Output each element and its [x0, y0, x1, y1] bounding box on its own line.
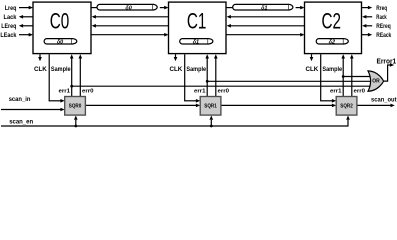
svg-text:Sample: Sample [322, 67, 342, 73]
svg-text:δ0: δ0 [57, 39, 63, 45]
svg-text:δ1: δ1 [261, 5, 267, 11]
svg-text:C2: C2 [322, 9, 342, 34]
svg-text:err1: err1 [194, 89, 206, 95]
svg-text:SQR2: SQR2 [340, 103, 353, 109]
svg-text:err0: err0 [354, 89, 366, 95]
svg-text:CLK: CLK [170, 67, 183, 73]
svg-text:scan_en: scan_en [9, 120, 33, 126]
svg-text:Rreq: Rreq [376, 6, 387, 12]
svg-text:Sample: Sample [186, 67, 206, 73]
svg-text:SQR0: SQR0 [69, 103, 82, 109]
svg-text:err0: err0 [82, 89, 94, 95]
svg-text:CLK: CLK [34, 67, 47, 73]
svg-text:δ0: δ0 [125, 5, 131, 11]
svg-text:δ2: δ2 [329, 39, 335, 45]
svg-text:δ1: δ1 [193, 39, 199, 45]
svg-text:scan_out: scan_out [371, 98, 397, 104]
svg-text:LEack: LEack [0, 33, 17, 39]
svg-text:C1: C1 [187, 9, 207, 34]
svg-text:Rack: Rack [376, 15, 387, 21]
svg-text:scan_in: scan_in [9, 97, 31, 103]
svg-text:OR: OR [372, 79, 380, 85]
svg-text:Error1: Error1 [377, 56, 397, 65]
svg-text:Lack: Lack [4, 15, 18, 21]
svg-text:Sample: Sample [51, 67, 71, 73]
svg-text:LEreq: LEreq [1, 24, 16, 30]
svg-text:SQR1: SQR1 [204, 103, 217, 109]
svg-text:err1: err1 [330, 89, 342, 95]
svg-text:Lreq: Lreq [5, 6, 17, 12]
svg-text:err1: err1 [59, 89, 71, 95]
svg-text:err0: err0 [218, 89, 230, 95]
svg-text:REreq: REreq [376, 24, 391, 30]
svg-text:C0: C0 [50, 9, 70, 34]
svg-text:CLK: CLK [306, 67, 319, 73]
svg-text:REack: REack [376, 33, 392, 39]
